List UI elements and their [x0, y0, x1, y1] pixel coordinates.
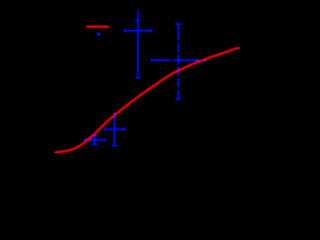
- data point P4 dashed upper extension: [137, 8, 139, 19]
- marker P4: [136, 29, 139, 32]
- marker P3: [177, 58, 181, 62]
- legend blue marker sample: [97, 32, 100, 35]
- marker P2: [113, 128, 116, 131]
- data point P1 error bars: [85, 136, 105, 145]
- data point P2 error bars: [105, 112, 124, 146]
- data point P4 error bars (solid, large, upper): [124, 20, 151, 77]
- red fit curve: [56, 48, 239, 152]
- marker P1: [93, 138, 96, 141]
- legend red line sample: [86, 26, 108, 28]
- data point P3 error bars (dashed): [151, 24, 205, 99]
